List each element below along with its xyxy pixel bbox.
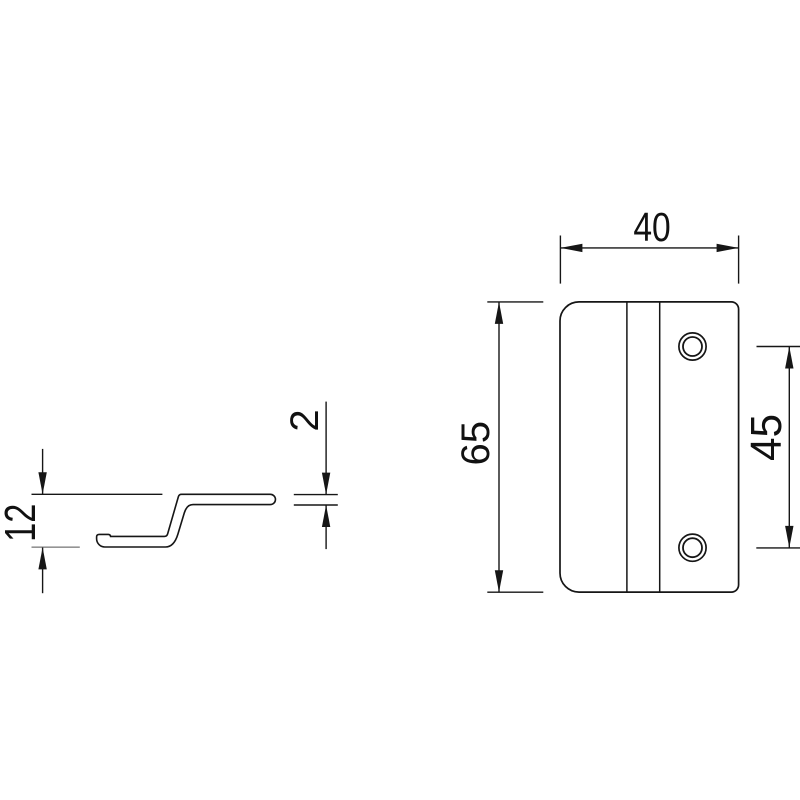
dimension 12: lower dimension line segment	[42, 547, 44, 593]
dimension 45: bottom arrow (points down)	[785, 526, 793, 548]
dimension 40: left arrow	[560, 244, 582, 252]
dimension 40: left extension line	[559, 236, 561, 284]
dimension 65: bottom extension line	[487, 591, 543, 593]
dimension 65: top arrow (points up)	[495, 302, 503, 324]
dimension 12: bottom extension line (grey)	[32, 546, 80, 548]
dimension 2: upper arrow (points down)	[322, 473, 330, 495]
svg-text:65: 65	[454, 421, 498, 466]
dimension 45: dimension line	[788, 347, 790, 548]
top hole outer circle	[679, 333, 706, 360]
front view: plate outline	[560, 302, 739, 592]
bottom hole inner circle	[683, 538, 702, 557]
dimension 65: top extension line	[487, 301, 543, 303]
top hole inner circle	[683, 337, 702, 356]
dimension 40: dimension line	[560, 247, 738, 249]
dimension 12: upper arrow (points down)	[38, 472, 46, 494]
dimension 2: bottom extension line	[294, 504, 338, 506]
dimension 12: lower arrow (points up)	[38, 547, 46, 569]
plate bend line 1	[626, 302, 628, 592]
bottom hole outer circle	[679, 534, 706, 561]
dimension 40: right arrow	[717, 244, 739, 252]
svg-text:12: 12	[0, 504, 45, 542]
plate bend line 2	[659, 302, 661, 592]
svg-text:2: 2	[283, 409, 327, 431]
svg-text:45: 45	[742, 414, 791, 461]
dimension 2: lower dimension line segment	[325, 505, 327, 549]
dimension 2: upper dimension line segment	[325, 402, 327, 495]
dimension 2: lower arrow (points up)	[322, 505, 330, 527]
dimension 45: top extension line	[757, 346, 800, 348]
dimension 12: top extension line	[32, 493, 163, 495]
svg-text:40: 40	[633, 204, 670, 250]
dimension 40: right extension line	[738, 236, 740, 284]
dimension 2: top extension line	[294, 494, 338, 496]
side view: Z-profile outline	[97, 494, 276, 547]
dimension 45: top arrow (points up)	[785, 347, 793, 369]
dimension 65: bottom arrow (points down)	[495, 570, 503, 592]
dimension 12: upper dimension line segment	[42, 449, 44, 494]
dimension 65: dimension line	[498, 302, 500, 592]
dimension 45: bottom extension line	[756, 547, 800, 549]
